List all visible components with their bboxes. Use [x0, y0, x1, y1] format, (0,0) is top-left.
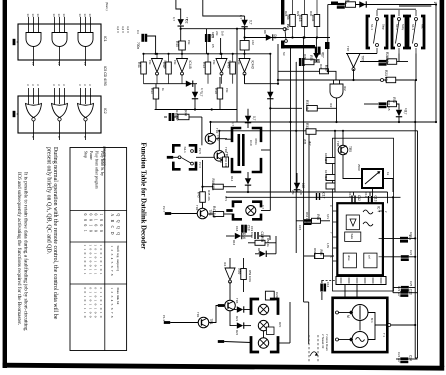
IC7 sample-hold box — [345, 232, 361, 241]
wire long bus 122 — [211, 121, 437, 123]
svg-text:0,7: 0,7 — [252, 116, 256, 121]
wire vertical 278 — [277, 44, 279, 84]
capacitor C9 — [299, 58, 305, 66]
wire R41 down — [143, 74, 145, 84]
IC1 gate 3 output wire — [85, 47, 87, 67]
wire bus 37 — [245, 37, 330, 39]
function table divider line 1 — [70, 210, 127, 212]
IC2 gate 2 output pin number — [57, 136, 61, 138]
switch S1-3 bottom pin — [415, 48, 417, 54]
switch S2-1 box — [173, 145, 196, 169]
capacitor C25 — [401, 286, 409, 292]
label C23 — [397, 286, 401, 297]
junction bus109 b — [211, 108, 213, 110]
wire to D13 — [247, 109, 249, 116]
wire bus to R49 — [232, 54, 234, 62]
junction P1 bus — [414, 324, 416, 326]
label R30 — [309, 11, 313, 17]
label D13 — [231, 122, 235, 126]
label TR7 name — [346, 46, 350, 52]
wire long bus 130 — [219, 130, 417, 132]
page label 17 — [433, 2, 437, 6]
trimmer potentiometer R19 box — [362, 169, 383, 188]
IC1 gate 1 pin number — [31, 14, 35, 18]
label motor — [370, 318, 374, 323]
junction D12/LS2 — [244, 36, 246, 38]
wire stub to S2-1 — [173, 156, 178, 158]
resistor R55 — [298, 15, 307, 27]
svg-text:R64 10k: R64 10k — [305, 212, 309, 223]
IC2 gate 2 pin number — [57, 84, 61, 86]
IC1 gate 3 pin number — [78, 14, 82, 18]
svg-text:R60: R60 — [219, 157, 223, 163]
junction 270/108 — [269, 107, 271, 109]
transistor TR6 — [225, 300, 236, 311]
wire IC4-A output — [156, 74, 158, 84]
label R43 value — [212, 60, 216, 65]
svg-text:TR5: TR5 — [336, 141, 340, 147]
label C19 — [250, 226, 254, 239]
svg-text:Function Table for Datalink De: Function Table for Datalink Decoder — [140, 143, 147, 250]
svg-text:3,2 V: 3,2 V — [126, 26, 130, 33]
wire IC4-E out — [229, 282, 231, 301]
junction right bus top — [435, 3, 437, 5]
svg-text:R66: R66 — [319, 250, 323, 256]
svg-text:TR3: TR3 — [224, 147, 228, 153]
svg-text:C5: C5 — [211, 44, 215, 48]
wire lamp box right — [278, 342, 290, 344]
wire R20 right — [397, 61, 408, 63]
wire to C15 — [296, 220, 303, 222]
IC7 sub box a — [343, 253, 356, 268]
wire R54 down — [292, 27, 294, 38]
label R19 1k — [386, 172, 390, 176]
IC7 pin 1 tick — [340, 275, 342, 276]
svg-text:D14: D14 — [230, 176, 234, 182]
junction D12 bus29 — [244, 28, 246, 30]
capacitor C16 — [320, 284, 326, 292]
svg-text:It is possible to retain these: It is possible to retain these data duri… — [23, 172, 30, 331]
diode D13 — [245, 116, 256, 123]
wire D16 to C19 — [242, 235, 253, 237]
svg-text:D22: D22 — [235, 330, 239, 336]
lamp box assembly — [251, 299, 278, 352]
svg-text:Data link bit: Data link bit — [116, 288, 120, 305]
diode D7 — [267, 92, 273, 99]
wire D18 to bus — [398, 116, 400, 122]
svg-text:13: 13 — [57, 14, 61, 18]
wire LP3 to LP4 — [263, 331, 265, 338]
IC1 gate 2 input pin wire — [64, 17, 66, 33]
wire pin to tacho — [339, 339, 353, 341]
lamp LP4 — [258, 338, 268, 348]
wire IC7 to C22 — [383, 256, 401, 258]
IC1 gate 2 pin number — [57, 14, 61, 18]
IC1 gate 3 input pin wire — [90, 17, 92, 33]
wire bus to TR3 — [218, 131, 220, 151]
wire top feed to D12 — [203, 0, 245, 16]
table header shift reg bits — [110, 246, 114, 277]
svg-text:LP1: LP1 — [224, 196, 228, 201]
label gate IC2 — [343, 86, 347, 91]
svg-text:Rec: Rec — [421, 24, 425, 29]
motor node diamond a — [349, 310, 353, 314]
junction TR7 bus80 — [352, 79, 354, 81]
IC1 gate 3 output pin number — [83, 62, 87, 65]
resistor R17 — [326, 175, 335, 181]
wire C4 to bus — [146, 36, 156, 54]
svg-text:R70: R70 — [278, 322, 282, 328]
diode D18 — [396, 110, 407, 117]
junction R55 — [303, 36, 305, 38]
switch S1-3 contact top — [415, 18, 418, 21]
lamp LP2 — [258, 304, 268, 314]
wire D11 to R40 — [180, 26, 182, 41]
table data shift reg row 1 — [99, 245, 103, 276]
label R64 — [305, 212, 309, 223]
svg-text:IC2: IC2 — [329, 103, 333, 108]
label R58 — [266, 238, 270, 247]
resistor R54 — [286, 15, 295, 27]
table title — [140, 143, 147, 250]
wire R16 to R17 — [334, 164, 336, 175]
transistor TR2 — [205, 133, 220, 144]
label C15 name — [298, 225, 302, 231]
label 1.6V — [326, 243, 329, 248]
junction TR5 bus — [342, 130, 344, 132]
wire bus to R42 — [168, 54, 170, 62]
junction bus109 a — [194, 108, 196, 110]
IC2 input terminal stub — [13, 111, 16, 117]
resistor R59 — [237, 269, 246, 280]
junction 290/122 — [289, 121, 291, 123]
IC2 input stub wire — [17, 113, 18, 115]
svg-text:13: 13 — [31, 14, 35, 18]
capacitor C23 — [400, 289, 412, 297]
wire right bus 436 — [435, 5, 437, 123]
svg-text:13: 13 — [83, 14, 87, 18]
wire bus to IC4-D — [244, 54, 246, 59]
label R28 — [284, 11, 288, 17]
label C12 name — [348, 192, 352, 198]
IC2 gate 1 input pin wire — [38, 88, 40, 104]
wire switch tops 9 — [377, 8, 416, 10]
label C10 — [249, 140, 253, 146]
svg-text:R58: R58 — [260, 236, 264, 242]
junction 278 bus80 — [277, 79, 279, 81]
wire D10 down — [194, 98, 196, 109]
switch S3 thick end left — [281, 41, 284, 49]
wire IC4-C output — [221, 74, 223, 84]
label S1-2 — [395, 24, 399, 30]
note nominal — [105, 2, 109, 11]
svg-text:700n: 700n — [136, 42, 140, 49]
label P2-7 — [162, 206, 166, 212]
wire output bus 83 left — [144, 83, 198, 85]
wire connector to motor box a — [344, 285, 346, 298]
resistor R66 — [315, 250, 324, 259]
svg-text:0,7: 0,7 — [404, 108, 408, 112]
svg-text:C13: C13 — [374, 196, 378, 202]
wire C24 to bus — [408, 358, 417, 360]
svg-text:C16: C16 — [326, 282, 330, 288]
label 470n — [254, 138, 258, 145]
wire S2-2 to vertical 270 — [261, 149, 270, 151]
svg-text:R49: R49 — [226, 62, 230, 68]
diode D17 — [259, 251, 267, 257]
dashed annotation line a — [308, 335, 310, 362]
svg-text:D16: D16 — [232, 240, 236, 246]
junction 278 out — [277, 83, 279, 85]
svg-text:ctrl: ctrl — [368, 255, 372, 259]
wire R43 down — [207, 74, 209, 84]
diode D12 — [241, 20, 252, 28]
wire bus join low — [415, 357, 417, 359]
paragraph 1 line 2 — [45, 147, 52, 255]
label R26 name — [344, 0, 348, 5]
dashed lead to connector — [322, 280, 336, 282]
label D17 name — [257, 248, 261, 254]
svg-text:15k: 15k — [148, 60, 152, 65]
contact circle R21 — [381, 79, 384, 82]
junction R45/R46 — [201, 186, 203, 188]
label P1-3 — [162, 315, 166, 321]
junction R54 — [291, 36, 293, 38]
resistor R49 — [226, 62, 235, 74]
junction at IC4-C top — [220, 53, 222, 55]
IC7 pin 2 tick — [348, 275, 350, 276]
label R29 — [296, 11, 300, 17]
resistor R58 — [255, 236, 265, 245]
junction S1-3 bus80 — [415, 79, 417, 81]
diode D10 — [192, 92, 203, 99]
capacitor C11 — [379, 102, 387, 108]
svg-text:C19 100n: C19 100n — [250, 226, 254, 239]
wire LS2 to bus — [244, 50, 246, 54]
svg-text:C20: C20 — [275, 292, 279, 298]
svg-text:1,6V: 1,6V — [326, 243, 329, 248]
label P2-6 — [198, 162, 202, 168]
wire R45 to TR4 — [202, 202, 204, 208]
junction 303/37 — [303, 36, 305, 38]
resistor R40 — [175, 41, 185, 50]
svg-text:0 0 1 0 1 1 1 0: 0 0 1 0 1 1 1 0 — [83, 288, 87, 319]
inverter IC4-A — [152, 59, 168, 76]
IC7 pin label 9 — [329, 205, 332, 207]
switch S1-1 bottom pin — [376, 48, 378, 54]
label C21 value — [409, 232, 413, 237]
IC1 package box — [18, 24, 101, 60]
IC1 reference label — [103, 36, 107, 42]
wire to C11 — [364, 103, 378, 105]
transistor TR4 — [197, 208, 212, 219]
connector bar pin marks — [341, 278, 381, 284]
wire R26 left — [328, 4, 337, 6]
svg-text:R31: R31 — [305, 123, 309, 129]
svg-text:15k: 15k — [173, 60, 177, 65]
motor node diamond b — [349, 337, 353, 341]
switch S3 thick end right — [325, 42, 330, 49]
junction 237 bus29 — [236, 28, 238, 30]
svg-text:165: 165 — [301, 183, 305, 189]
wire TR6 to D21 — [234, 309, 237, 311]
junction R53 bus — [220, 53, 222, 55]
resistor R45a — [150, 88, 159, 99]
label IC7 sample hold — [350, 234, 354, 240]
svg-text:D8: D8 — [273, 35, 277, 39]
resistor R64 — [312, 214, 321, 223]
svg-text:15k: 15k — [187, 40, 191, 45]
IC7 pin 4 tick — [364, 275, 366, 276]
wire bus 192 — [226, 191, 388, 193]
svg-text:13: 13 — [62, 14, 66, 18]
capacitor C13 — [368, 196, 378, 204]
transistor TR1 — [198, 317, 213, 328]
terminal stub TR6 — [218, 304, 224, 307]
svg-text:S1-1: S1-1 — [370, 24, 374, 30]
NOR gate IC2-C — [78, 104, 94, 122]
svg-text:15k: 15k — [237, 60, 241, 65]
IC1 gate 1 pin number — [36, 14, 40, 18]
IC2 gate 1 output pin number — [31, 136, 35, 138]
svg-text:3,1V: 3,1V — [326, 214, 329, 219]
wire D21 to lamp — [243, 309, 251, 311]
wire bus to IC4-A — [156, 54, 158, 59]
svg-text:TR7: TR7 — [361, 56, 365, 62]
wire to R16 — [334, 131, 336, 158]
wire S2-1 down to R45 — [202, 160, 204, 192]
switch S1-1 lever — [374, 20, 378, 43]
svg-text:R41: R41 — [137, 62, 141, 68]
label R35 name — [303, 54, 307, 60]
wire D22 to lamp — [243, 325, 251, 327]
diode D21 — [237, 306, 245, 312]
switch S1-2 lever — [396, 20, 400, 43]
IC7 pin label 5 — [329, 256, 332, 258]
label TR2 name — [215, 128, 219, 134]
inverter IC4-D — [239, 59, 255, 76]
label IC7 sub b — [368, 255, 372, 259]
svg-text:1 0 1 0 1 0 1 1: 1 0 1 0 1 0 1 1 — [94, 245, 98, 276]
NOR gate IC2-A — [26, 104, 42, 122]
switch S1-1 left bracket — [367, 16, 370, 48]
diode D19 — [294, 183, 305, 191]
wire bus to TR5 — [342, 131, 344, 145]
switch S2-1 contact b — [191, 150, 194, 153]
voltage label 3.2V c — [126, 26, 130, 33]
wire R53 drop — [220, 38, 222, 54]
svg-text:S1-3: S1-3 — [411, 24, 415, 30]
svg-text:R17 784: R17 784 — [324, 170, 328, 180]
svg-text:2 Tweak 33: 2 Tweak 33 — [321, 334, 325, 349]
label C22 name — [409, 250, 413, 256]
svg-text:R47 1k8: R47 1k8 — [212, 206, 216, 218]
switch S1-1 right bracket — [384, 16, 387, 48]
svg-text:TR2: TR2 — [215, 128, 219, 134]
svg-text:3,2 V: 3,2 V — [116, 26, 120, 33]
wire bus 197 — [226, 196, 401, 198]
wire to R48 — [219, 77, 221, 88]
svg-text:R44 4k7: R44 4k7 — [175, 110, 179, 121]
label S1-3 — [411, 24, 415, 30]
wire R35 right — [314, 61, 320, 63]
transistor TR3 — [214, 151, 229, 162]
junction D18/bus — [398, 121, 400, 123]
IC7 pin 6 tick — [380, 275, 382, 276]
IC2 gate 1 pin number — [26, 84, 30, 86]
junction TR3 bus130 — [218, 130, 220, 132]
wire down to S2-1 — [201, 117, 203, 145]
capacitor C20 box — [265, 291, 274, 300]
resistor R41 — [137, 62, 146, 74]
switch S3 contact a — [283, 28, 286, 31]
table data shift reg row 4 — [83, 245, 87, 276]
wire vertical 327 — [327, 5, 329, 72]
svg-text:Q Q Q Q: Q Q Q Q — [116, 214, 120, 237]
svg-text:0,7: 0,7 — [261, 205, 265, 209]
svg-text:C15: C15 — [298, 225, 302, 231]
svg-text:0,7: 0,7 — [199, 92, 203, 97]
svg-text:0,7: 0,7 — [231, 122, 235, 126]
svg-text:R30: R30 — [309, 11, 313, 17]
wire to C12 — [353, 192, 355, 196]
wire D15 down — [315, 59, 317, 62]
wire IC4-D out — [244, 74, 246, 84]
label R44 — [175, 110, 179, 121]
svg-text:C4: C4 — [136, 30, 140, 34]
IC2 gate 1 input pin wire — [28, 88, 30, 104]
svg-text:0,7: 0,7 — [200, 88, 204, 92]
wire R55 down — [304, 27, 306, 38]
switch S3 contact b — [285, 40, 288, 43]
label IC7 — [377, 206, 381, 212]
wire TR7 down — [353, 69, 355, 80]
wire stub to lamp box — [224, 342, 251, 343]
lamp LP3 — [258, 320, 268, 330]
wire P1 to bus — [391, 324, 415, 326]
switch S4 thick bar top right — [331, 2, 338, 5]
svg-text:1 0 0 0: 1 0 0 0 — [99, 214, 103, 234]
svg-text:R58 1k: R58 1k — [266, 238, 270, 247]
svg-text:drive: drive — [347, 255, 351, 261]
NAND gate IC1-A — [26, 33, 41, 47]
wire c9 — [295, 61, 297, 63]
wire connector to motor box b — [356, 285, 358, 298]
IC2 gate 1 input pin wire — [33, 88, 35, 104]
wire S1-2 down — [398, 54, 400, 62]
svg-text:0 1 0 0: 0 1 0 0 — [94, 214, 98, 234]
IC6 type label — [102, 146, 106, 166]
trimmer R19 arrow — [365, 171, 380, 184]
svg-text:C14: C14 — [385, 56, 389, 62]
svg-text:T 1: T 1 — [382, 333, 386, 337]
diode D23 — [359, 1, 367, 7]
svg-text:C18: C18 — [235, 226, 239, 232]
terminal stub TR1 — [164, 321, 170, 324]
capacitor C12 — [351, 195, 361, 203]
wire vertical 303 — [303, 38, 305, 303]
label C5 name — [211, 44, 215, 48]
resistor R48 — [214, 88, 223, 99]
IC7 pin label 7 — [329, 232, 332, 234]
switch S1-2 top pin — [398, 10, 400, 16]
svg-text:R59 100k: R59 100k — [248, 270, 252, 283]
IC1 input stub wire — [17, 41, 18, 43]
IC2 package box — [18, 96, 101, 133]
svg-text:St.by: St.by — [401, 24, 405, 31]
wire to R33 — [270, 107, 302, 109]
svg-text:IC4-B: IC4-B — [188, 61, 192, 69]
